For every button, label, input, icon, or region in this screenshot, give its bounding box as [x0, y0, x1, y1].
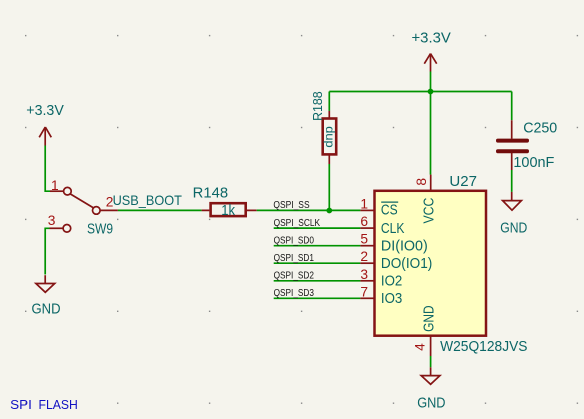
- svg-text:QSPI_SD1: QSPI_SD1: [274, 253, 315, 264]
- svg-text:GND: GND: [500, 221, 527, 237]
- svg-text:6: 6: [360, 214, 368, 229]
- svg-text:U27: U27: [449, 174, 477, 190]
- svg-text:SPI: SPI: [10, 397, 32, 412]
- wire from +3.3V to SW9 pin 1: [45, 146, 50, 192]
- wire R188 bottom to QSPI_SS: [328, 164, 330, 210]
- svg-text:5: 5: [360, 232, 368, 247]
- U27 pin 8 (VCC, top): [430, 175, 432, 191]
- svg-text:4: 4: [413, 343, 428, 351]
- svg-text:DI(IO0): DI(IO0): [381, 239, 428, 255]
- svg-text:3: 3: [48, 213, 56, 228]
- svg-text:1k: 1k: [221, 203, 235, 219]
- U27 pin 5 (DI/IO0): [360, 245, 374, 247]
- svg-text:100nF: 100nF: [513, 155, 554, 171]
- U27 pin 3 (IO2): [360, 280, 374, 282]
- svg-text:GND: GND: [32, 302, 61, 318]
- svg-text:GND: GND: [417, 396, 445, 412]
- wire QSPI_SD1: [274, 262, 361, 264]
- switch SW9: [50, 187, 118, 232]
- svg-text:CLK: CLK: [381, 221, 405, 237]
- wire rail down to R188: [328, 92, 330, 111]
- wire QSPI_SD3: [274, 297, 361, 299]
- ground (under C250): [503, 192, 522, 210]
- resistor R188: [323, 111, 337, 164]
- ground (under U27): [421, 367, 440, 384]
- svg-text:QSPI_SS: QSPI_SS: [273, 200, 309, 211]
- svg-text:+3.3V: +3.3V: [26, 103, 64, 119]
- svg-text:R148: R148: [193, 185, 228, 201]
- svg-text:1: 1: [51, 178, 59, 193]
- svg-text:3: 3: [360, 267, 368, 282]
- junction on QSPI_SS: [326, 208, 332, 214]
- svg-text:IO2: IO2: [381, 274, 402, 290]
- power symbol +3.3V (top): [424, 54, 436, 72]
- svg-text:VCC: VCC: [422, 197, 438, 223]
- svg-text:8: 8: [414, 178, 429, 186]
- power symbol +3.3V (left): [39, 127, 51, 146]
- svg-text:GND: GND: [422, 305, 438, 332]
- IC U27 body: [375, 191, 487, 336]
- svg-text:DO(IO1): DO(IO1): [381, 256, 432, 272]
- capacitor C250: [496, 120, 529, 170]
- svg-text:+3.3V: +3.3V: [412, 31, 451, 47]
- svg-text:CS: CS: [381, 203, 398, 219]
- wire +3.3V stem to rail: [430, 72, 432, 92]
- wire SW9 pin3 to GND: [45, 228, 49, 274]
- wire SW9 pin2 to R148: [118, 209, 202, 211]
- U27 pin 7 (IO3): [360, 297, 374, 299]
- svg-text:SW9: SW9: [87, 222, 113, 238]
- svg-text:USB_BOOT: USB_BOOT: [113, 193, 183, 208]
- svg-text:1: 1: [360, 196, 368, 211]
- U27 pin 6 (CLK): [360, 227, 374, 229]
- wire C250 to GND: [511, 170, 513, 192]
- svg-text:QSPI_SD3: QSPI_SD3: [274, 288, 315, 299]
- svg-text:QSPI_SCLK: QSPI_SCLK: [274, 218, 321, 229]
- svg-text:W25Q128JVS: W25Q128JVS: [440, 339, 528, 355]
- wire top power rail: [329, 91, 511, 93]
- svg-text:2: 2: [360, 249, 368, 264]
- wire QSPI_SCLK: [274, 227, 361, 229]
- svg-text:7: 7: [360, 284, 368, 299]
- svg-text:R188: R188: [311, 91, 325, 121]
- svg-text:IO3: IO3: [381, 291, 402, 307]
- wire QSPI_SD2: [274, 280, 361, 282]
- svg-text:QSPI_SD2: QSPI_SD2: [274, 271, 315, 282]
- wire rail to VCC pin 8: [430, 92, 432, 175]
- svg-text:dnp: dnp: [324, 126, 336, 148]
- junction on rail: [428, 89, 434, 95]
- U27 pin 2 (DO/IO1): [360, 262, 374, 264]
- wire U27 pin 4 to GND: [430, 356, 432, 367]
- ground (left): [36, 275, 55, 292]
- wire rail to C250: [511, 92, 513, 121]
- svg-text:QSPI_SD0: QSPI_SD0: [274, 235, 315, 246]
- svg-text:FLASH: FLASH: [39, 397, 78, 412]
- wire QSPI_SD0: [274, 245, 361, 247]
- U27 pin 4 (GND, bottom): [430, 336, 432, 356]
- resistor R148: [202, 203, 257, 216]
- wire R148 to U27 pin 1 (QSPI_SS net): [257, 209, 361, 211]
- svg-text:C250: C250: [523, 120, 557, 136]
- U27 pin 1 (CS): [360, 209, 374, 211]
